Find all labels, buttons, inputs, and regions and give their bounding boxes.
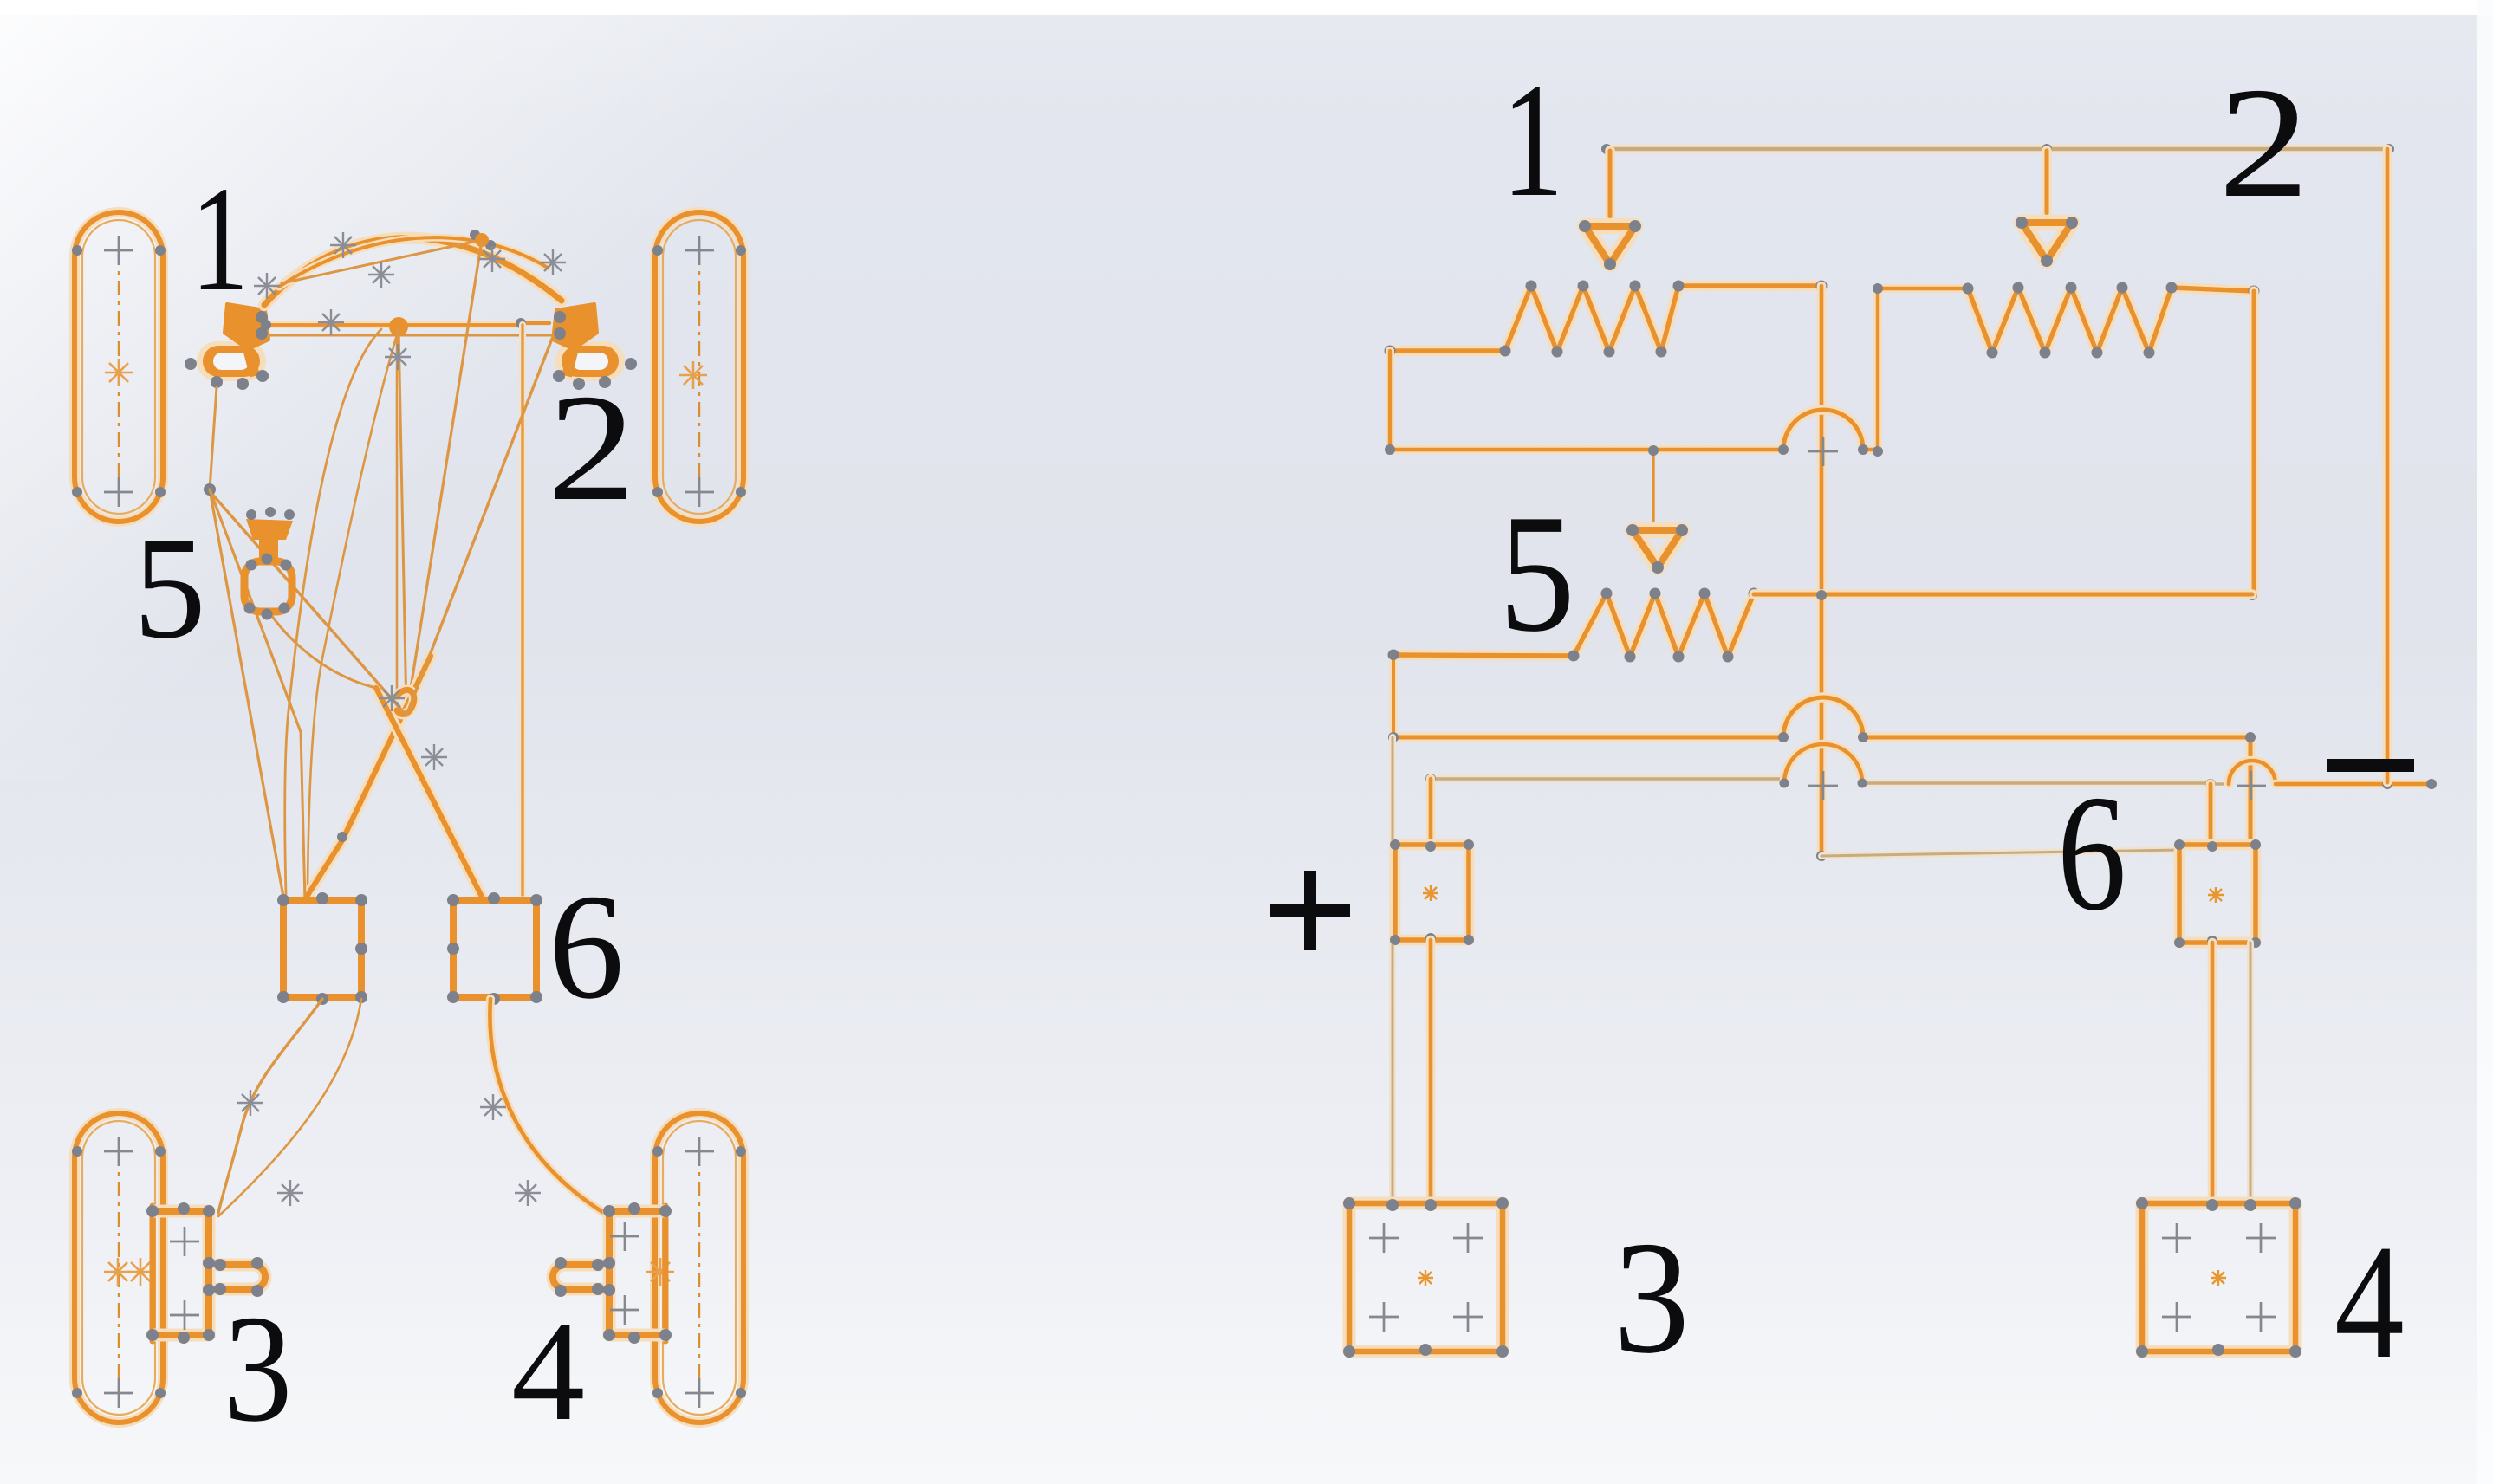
knuckle joint hook at crossing xyxy=(396,690,414,714)
label 6 right xyxy=(2057,761,2126,945)
wire: node D (R2 right down to R5 output line) xyxy=(2247,291,2257,600)
sway curve to left spring xyxy=(285,329,381,894)
label 4 left xyxy=(511,1293,585,1450)
label 5 right xyxy=(1499,480,1575,667)
label 5 left xyxy=(133,507,206,669)
wire: node B to 6-box thin link xyxy=(1821,846,2185,857)
lower arm V (left leg) xyxy=(305,656,431,899)
wire: far right vertical from top bus to minus node xyxy=(2383,149,2392,782)
tie chord link xyxy=(282,230,496,283)
terminal: minus bar xyxy=(2327,759,2414,772)
drop link centre xyxy=(397,240,482,716)
wire: stem to arrow 2 xyxy=(2042,151,2052,213)
wire: stem to arrow 1 xyxy=(1605,151,1615,217)
component: + box (brush terminal) xyxy=(1390,839,1474,945)
steering knuckle left (hub 1) xyxy=(185,304,269,390)
wheel 4 (rear-right tyre) xyxy=(646,1113,746,1422)
spring rectangle right (6 pair) xyxy=(447,892,542,1005)
upper wishbone arch (outer arc) xyxy=(264,238,562,305)
wheel 3 (rear-left tyre) xyxy=(72,1113,166,1422)
wire: R5 output to node D horizontal xyxy=(1754,590,2252,600)
wire: thin run E to 3-box xyxy=(1389,737,1396,1203)
wire: stem to arrow 5 xyxy=(1648,445,1659,521)
arrow 2 (pointer to resistor 2) xyxy=(2016,217,2078,267)
wire: node C (R1 left to R2 left) with jump over B xyxy=(1385,283,1968,466)
steering column vertical to spring 6 xyxy=(519,325,526,895)
tie rod (steering rack line) xyxy=(261,317,553,336)
label 6 left xyxy=(549,863,624,1030)
component: 3 box (wheel motor) xyxy=(1343,1197,1509,1358)
wire: +box bottom to 3-box xyxy=(1426,940,1436,1203)
component: 6 box (brush terminal) xyxy=(2174,839,2261,948)
sketch point stars upper mechanism xyxy=(254,232,566,770)
lower arm V (right leg) xyxy=(269,612,483,898)
wheel 2 (front-right tyre) xyxy=(652,212,746,522)
diagonal strut to frame apex xyxy=(210,491,406,716)
spring rectangle left (6 pair) xyxy=(277,892,367,1005)
arrow 5 (pointer to resistor 5) xyxy=(1626,524,1688,574)
arrow 1 (pointer to resistor 1) xyxy=(1579,220,1641,270)
shock curve left inner xyxy=(218,999,361,1216)
wire: 6-box to 4-box twin leads xyxy=(2212,943,2250,1203)
svg-text:5: 5 xyxy=(1499,480,1575,667)
shock curve left to rear hub xyxy=(218,999,322,1213)
svg-text:1: 1 xyxy=(191,154,249,322)
upper wishbone arch (inner arc) xyxy=(279,237,548,287)
label 3 left xyxy=(224,1284,292,1454)
label 4 right xyxy=(2334,1211,2405,1393)
wheel 1 (front-left tyre) xyxy=(72,212,166,522)
shock curve right to rear hub xyxy=(490,999,607,1215)
damper 5 (mount trapezoid) xyxy=(246,507,295,561)
damper 5 (eye ring) xyxy=(244,554,293,620)
component: 4 box (wheel motor) xyxy=(2136,1197,2301,1358)
frame member apex to spring 3 xyxy=(204,483,283,897)
svg-text:4: 4 xyxy=(511,1293,585,1450)
wire: 6-box top stub from node F xyxy=(2205,784,2215,845)
svg-text:2: 2 xyxy=(548,363,635,533)
svg-text:2: 2 xyxy=(2218,55,2309,230)
label 1 right xyxy=(1502,50,1564,231)
resistor R1 xyxy=(1385,281,1828,358)
rear bracket right (hub 4) xyxy=(553,1202,672,1344)
kingpin link hub1 to apex xyxy=(210,387,217,489)
label 1 left xyxy=(191,154,249,322)
svg-text:3: 3 xyxy=(1613,1209,1690,1388)
terminal: plus sign xyxy=(1270,871,1350,950)
svg-text:6: 6 xyxy=(2057,761,2126,945)
wire: node F (+box top to minus stub) with jumps xyxy=(1425,744,2437,800)
svg-text:3: 3 xyxy=(224,1284,292,1454)
resistor R5 xyxy=(1388,588,1760,663)
sketch point stars lower curves xyxy=(237,1090,541,1206)
steering knuckle right (hub 2) xyxy=(553,304,637,390)
svg-text:5: 5 xyxy=(133,507,206,669)
wire: node E (R5 left lead down, across to 6-box) with jump xyxy=(1388,650,2256,845)
diagonal strut to hub 2 xyxy=(406,339,552,716)
svg-text:1: 1 xyxy=(1502,50,1564,231)
wire: node B vertical (R1 right lead down) xyxy=(1816,286,1827,861)
wire: top bus (node 1-2 feed) xyxy=(1601,144,2394,154)
svg-text:6: 6 xyxy=(549,863,624,1030)
push rod curve xyxy=(308,329,399,892)
label 2 left xyxy=(548,363,635,533)
resistor R2 xyxy=(1963,282,2260,359)
svg-text:4: 4 xyxy=(2334,1211,2405,1393)
label 2 right xyxy=(2218,55,2309,230)
rear bracket left (hub 3) xyxy=(146,1202,265,1344)
wire: +box top stub xyxy=(1426,779,1436,845)
frame member apex short xyxy=(210,489,305,901)
label 3 right xyxy=(1613,1209,1690,1388)
